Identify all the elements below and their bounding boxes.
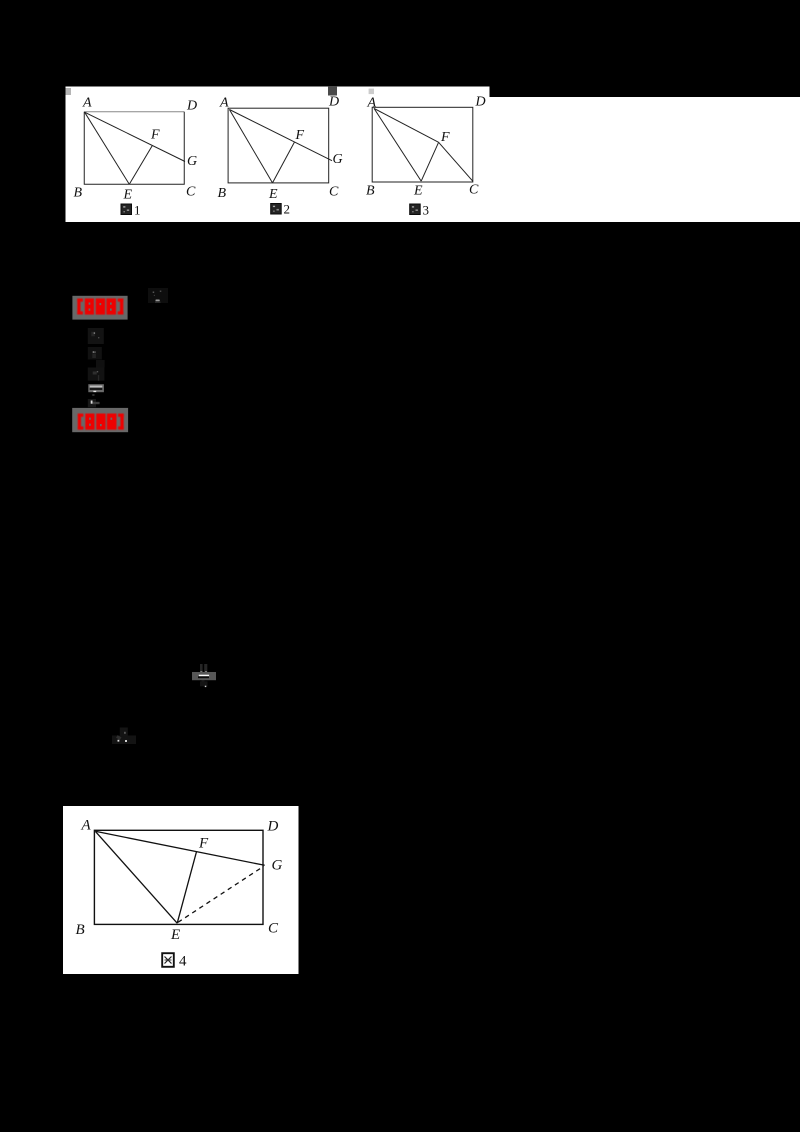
svg-text:E: E	[413, 184, 423, 199]
top white panel right part	[488, 97, 800, 222]
fig4 caption 图4	[162, 953, 187, 969]
gray notch top-left corner of panel	[66, 88, 72, 95]
svg-text:C: C	[329, 185, 339, 200]
fig3 line AE	[374, 108, 421, 181]
answer box1 glyph notches	[89, 303, 112, 311]
fig3 line FC	[439, 142, 473, 181]
answer box1 red bracket left	[77, 299, 80, 315]
svg-text:A: A	[219, 96, 229, 111]
svg-text:A: A	[82, 96, 92, 111]
answer box2 red bracket right	[120, 414, 123, 430]
fraction denominator	[202, 680, 205, 682]
svg-text:B: B	[76, 922, 85, 938]
fig4 line AG	[95, 831, 264, 865]
answer box1 gray background	[72, 296, 127, 320]
fig4 rectangle ABCD	[94, 830, 263, 924]
svg-text:D: D	[328, 95, 339, 110]
fig2 line AE	[229, 110, 272, 183]
svg-text:B: B	[218, 186, 227, 201]
svg-text:F: F	[440, 130, 450, 145]
fig3 line EF	[421, 142, 438, 181]
answer box2 red char 3	[107, 414, 117, 430]
fig1 line AG	[85, 112, 185, 161]
answer box2 gray background	[72, 408, 128, 432]
answer box2 red char 1	[85, 414, 94, 430]
dark gray artifact block above fig2 D	[328, 86, 337, 96]
svg-text:2: 2	[284, 202, 291, 217]
fig1 rectangle ABCD top edge	[84, 111, 184, 113]
svg-text:D: D	[475, 95, 486, 110]
fig1 caption 图1	[121, 203, 141, 218]
svg-text:B: B	[366, 184, 375, 199]
answer box2 glyph notches	[89, 418, 112, 427]
column block 3	[96, 360, 105, 368]
svg-text:C: C	[268, 921, 279, 937]
column white dash	[93, 391, 96, 392]
light gray artifact block above fig3 A	[369, 89, 374, 95]
column bottom mark	[88, 399, 96, 407]
fraction numerator strokes	[200, 664, 203, 672]
column block 4	[88, 368, 105, 381]
fig2 line AG	[229, 110, 332, 161]
fig1 line AE	[85, 112, 130, 184]
svg-text:C: C	[186, 185, 196, 200]
fig4 dashed line EG	[178, 866, 264, 922]
column fraction bar widget	[88, 384, 104, 392]
faint radical mark lower-left	[112, 728, 136, 745]
answer box1 red char 2	[96, 298, 105, 314]
column block 2	[88, 347, 102, 360]
faint working column between boxes	[88, 328, 105, 407]
svg-text:E: E	[123, 188, 133, 203]
svg-text:4: 4	[179, 954, 187, 970]
answer box1 red char 3	[106, 298, 116, 314]
answer box1 red char 1	[85, 298, 94, 314]
answer box2 red char 2	[96, 414, 105, 430]
fig4 white panel	[63, 806, 299, 974]
fig3 caption 图3	[410, 203, 429, 218]
answer box2 red bracket left	[78, 414, 81, 430]
fig1 line EF	[129, 145, 152, 184]
svg-text:C: C	[469, 183, 479, 198]
column speck below bar	[92, 394, 94, 396]
fig4 line EF	[177, 851, 196, 923]
svg-text:F: F	[150, 128, 160, 143]
fraction gray highlight band	[192, 672, 216, 680]
svg-text:3: 3	[423, 203, 430, 218]
svg-text:E: E	[170, 927, 180, 943]
svg-text:A: A	[81, 818, 92, 834]
svg-text:B: B	[74, 186, 83, 201]
svg-text:D: D	[186, 99, 197, 114]
fig2 line EF	[273, 142, 295, 183]
svg-text:G: G	[333, 152, 343, 167]
mid-page highlighted fraction	[192, 664, 216, 687]
answer box1 red bracket right	[120, 299, 123, 315]
svg-text:E: E	[268, 187, 278, 202]
svg-text:F: F	[295, 128, 305, 143]
fig3 line AF	[374, 108, 439, 142]
fraction white bar	[199, 675, 209, 677]
fig2 rectangle ABCD	[228, 108, 329, 183]
top white panel left part	[66, 87, 490, 223]
fraction dark bar	[198, 676, 209, 678]
fig3 rectangle ABCD	[372, 107, 473, 182]
fig1 rectangle ABCD left/bottom/right edges	[84, 112, 184, 185]
fig2 caption 图2	[271, 202, 290, 217]
svg-text:1: 1	[134, 203, 141, 218]
faint formula right of answer box1	[148, 288, 168, 303]
column block 1	[88, 328, 104, 344]
fig4 line AE	[95, 831, 177, 923]
svg-text:A: A	[367, 96, 377, 111]
svg-text:F: F	[198, 836, 209, 852]
svg-text:D: D	[267, 819, 279, 835]
svg-text:G: G	[187, 154, 197, 169]
svg-text:G: G	[272, 858, 283, 874]
